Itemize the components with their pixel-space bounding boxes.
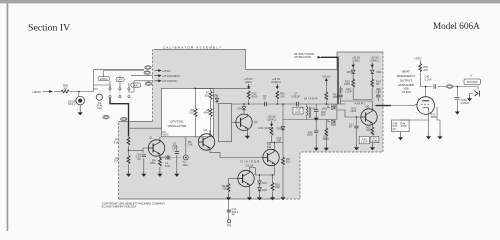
transformer T1 core [309,107,310,118]
wire to resistor R28 [54,91,61,93]
wire Q3 emitter to ground [246,131,248,134]
heavy strap from wiper [110,98,129,137]
svg-text:CALIBRATOR ASSEMBLY: CALIBRATOR ASSEMBLY [163,45,221,49]
svg-text:+25.6V: +25.6V [162,69,171,73]
boxed resistor R18 1000 [293,107,303,114]
wire R7 to R8 [210,100,212,108]
crystal Y1 dot [185,157,187,159]
ground under Q3 [246,133,250,138]
left page edge line [7,3,9,231]
resistor R4 [159,158,162,166]
ground under C46 [455,109,459,114]
svg-text:Q3,Q4: Q3,Q4 [246,163,254,167]
ground under Q5 [248,195,252,200]
ground under R2 [127,171,131,176]
svg-text:(1MC): (1MC) [245,80,252,84]
svg-text:750: 750 [222,186,227,190]
ground under C1 [142,171,146,176]
transistor Q2 buffer [198,134,214,150]
svg-text:620: 620 [275,185,280,189]
svg-text:0.01UF: 0.01UF [292,94,301,98]
resistor R45 15K [419,64,422,72]
node dot CR6 top [243,103,245,105]
resistor R14 [270,127,273,135]
wire emitter to L1 [160,156,165,158]
resistor R11 vertical [276,91,279,99]
wire mixer supply down [325,84,327,92]
wire R19 down to rail [353,88,372,100]
svg-text:5600: 5600 [163,132,169,136]
svg-text:FREQUENCY: FREQUENCY [397,74,416,78]
net arrow +25.6V 1MC [155,80,162,82]
capacitor C10 on tp wire [227,210,231,212]
lamp DS1 circle [76,96,85,105]
svg-text:Q1: Q1 [149,136,153,140]
osc box internal wire 1 [195,88,197,108]
assembly solid top edges [154,50,383,70]
svg-text:2.2UF: 2.2UF [361,139,368,143]
tube cathode wire down [401,107,441,134]
capacitor C8 in line [265,102,267,106]
supply arrow q3 [270,121,272,126]
svg-text:470K: 470K [401,124,407,128]
cathode RC box [392,120,410,132]
svg-text:PHONES: PHONES [467,80,478,84]
svg-text:UF: UF [137,157,141,161]
wire CR4 chain [371,67,373,79]
RF heavy line [321,57,338,104]
ground under C17 [355,145,359,150]
resistor R22 hang [325,128,328,136]
ground under CR2 [258,195,262,200]
node dot divider rail [274,142,276,144]
svg-text:AF: AF [232,213,236,217]
wire Q5 emitter down [248,187,250,195]
wire T1 stems [306,104,308,120]
wire 100KC feed line1 [104,71,144,88]
mixer lower rail [283,119,337,121]
wire C17 stems [356,117,358,145]
resistor R19 [352,79,355,87]
wire R21 to wire [325,101,327,104]
wire diodes vertical link [328,104,337,122]
wire C9 stems [315,104,317,115]
assembly dashed left edges [119,50,153,200]
svg-text:+25.6V: +25.6V [322,75,331,79]
svg-text:CR1: CR1 [262,181,268,185]
calibrator assembly shaded region [119,50,384,200]
svg-text:CR6: CR6 [237,107,243,111]
node base tap junction [128,150,130,152]
node dot R16 top [272,174,274,176]
svg-text:BEAT: BEAT [402,70,410,74]
wire short stub into switch row [94,88,98,90]
node dot output branch [457,86,459,88]
svg-text:10K: 10K [280,94,285,98]
wire collector diode [243,104,245,114]
wire R10 to main wire [248,100,250,104]
supply rail y88.3 [195,87,250,89]
wire box to ground [400,132,402,135]
osc box internal wire 2 [210,88,212,91]
svg-text:(100KC): (100KC) [370,58,380,62]
assembly notch bottom edge [119,121,153,123]
switch label box OFF [116,78,124,82]
node emitter tap [159,157,160,158]
capacitor C1 stem [142,150,144,153]
wire base tap to Q1 [129,148,149,150]
wire grid lead [391,104,418,106]
capacitor C17 hang [354,126,358,128]
switch label box 100KC [98,77,109,81]
ground under tube k2 [438,134,442,139]
wire Q2 collector up [209,130,211,134]
switch rotor S1 circle [96,94,102,100]
wire OFF box to contact [119,82,121,87]
diode CR8 [281,127,285,130]
ground under jack [468,96,472,101]
wire Q5 base left [229,178,238,180]
svg-text:AMPLIFIER: AMPLIFIER [398,83,415,87]
wire R6 to box bottom [195,118,197,137]
resistor R24 [371,79,374,87]
svg-text:C9: C9 [311,106,315,110]
wire Q6 collector up [341,101,373,109]
supply arrow mixer (up) [325,79,327,84]
svg-text:215K: 215K [372,139,378,143]
svg-text:100KC: 100KC [100,77,108,81]
test point wire below assembly [228,199,230,220]
svg-text:OSCILLATOR: OSCILLATOR [168,124,188,128]
capacitor C14 hang [314,131,318,133]
wire Q1 collector to osc box [159,137,161,140]
wire R45 to node [420,73,431,87]
ground under R17 [281,195,285,200]
svg-text:R14: R14 [259,126,264,130]
wire C14 stems [315,120,317,146]
node dot mixer top [326,103,328,105]
svg-text:(100KC): (100KC) [271,80,281,84]
transformer T1 winding [307,107,308,116]
wire C15 stems [340,86,342,104]
svg-text:SCAN BY HB9HFK FEB 2004: SCAN BY HB9HFK FEB 2004 [102,204,137,208]
resistor R17 510 [282,157,285,165]
supply arrow mid2 [276,84,278,89]
svg-text:15K: 15K [423,68,428,72]
switch contact 2 row1 [119,88,121,90]
wire net row1 to boundary [131,75,153,77]
svg-text:390: 390 [277,139,282,143]
wire R13 stems [228,179,230,195]
svg-text:1000: 1000 [322,106,328,110]
wire lamp stem [78,92,80,97]
wire Q1 emitter to R4 [159,156,161,158]
resistor R13 750 [227,184,230,192]
inductor L1 slug tuned [166,156,170,160]
jack ground stem [470,94,474,96]
wire R17 stems [282,143,284,195]
svg-text:Section IV: Section IV [28,22,70,33]
wire R2 to ground [128,165,130,172]
node dot CR8 top [282,103,284,105]
svg-text:51K: 51K [189,111,194,115]
capacitor C9 mixer [314,110,318,112]
diode CR1 divider [258,181,262,184]
wire C16 stems [377,88,379,101]
svg-text:0.05UF: 0.05UF [461,101,470,105]
svg-text:1/2 6U8: 1/2 6U8 [401,90,411,94]
transistor Q1 [148,140,164,156]
tuning dashed link to Y1 [172,157,182,159]
wire Q2 emitter chain to divider [210,150,262,157]
wire R14 down [271,136,273,143]
assembly bottom edge [119,198,279,200]
capacitor C45 in line [434,84,436,88]
svg-text:510: 510 [286,159,291,163]
supply arrow tr2 [371,63,373,68]
svg-text:CAL: CAL [97,106,103,110]
svg-text:51K: 51K [205,93,210,97]
svg-text:TP1: TP1 [227,223,232,227]
node dot plate [425,86,427,88]
svg-text:1000: 1000 [344,82,350,86]
diode CR3 [351,70,355,73]
svg-text:300K: 300K [431,115,437,119]
wire CR chain [259,175,261,195]
svg-text:OFF: OFF [118,78,124,82]
RF arrowhead [318,56,322,59]
oval tag C [145,82,151,86]
svg-text:Model 606A: Model 606A [433,21,480,31]
svg-text:(100KC): (100KC) [267,117,277,121]
oval tag D lower left [103,115,109,119]
svg-text:+300V: +300V [414,56,422,60]
svg-text:390: 390 [267,145,272,149]
wire C45 to phones [438,87,478,90]
ground under C14 [314,145,318,150]
wire Q5 collector up join [249,168,255,176]
svg-text:CR8: CR8 [276,126,282,130]
ground under R16 [271,195,275,200]
oval tag B [144,71,150,75]
node dot CR top [259,174,261,176]
svg-text:(1MC): (1MC) [352,58,359,62]
node dot R11 wire [277,103,279,105]
svg-text:MIXER: MIXER [304,97,318,101]
svg-text:10K: 10K [188,143,193,147]
wire R25 down [371,136,373,145]
capacitor C16 [376,95,380,97]
transistor Q3 osc out [236,114,252,130]
capacitor C7 in line [297,102,299,106]
wire arrow after +300V [43,91,53,93]
oval tag E on strap [121,117,127,121]
svg-text:DS1 V: DS1 V [68,102,76,106]
resistor R2 [127,156,130,164]
net arrow +25.6V [155,70,162,72]
capacitor C15 [338,95,342,97]
diode CR7 horizontal [332,120,335,124]
node dot base [356,116,358,118]
svg-text:1.5UF: 1.5UF [345,89,352,93]
transistor Q5 divider lower [238,170,254,186]
svg-text:Q6: Q6 [366,105,370,109]
wire Q6 base from mixer diodes [337,110,361,117]
svg-text:20K: 20K [63,86,68,90]
switch contact 1 row1 [109,88,111,90]
wire CR3 chain [352,67,354,79]
ground under C3 [175,171,179,176]
boxed res R27 [371,136,379,142]
wire C46 to ground [456,100,458,109]
wire Q3 base from box [232,121,236,123]
wire R16 stems [272,175,274,195]
wire R8 down [210,118,212,137]
svg-text:100: 100 [366,128,371,132]
svg-text:2610: 2610 [350,109,356,113]
svg-text:+25.6V(1MC): +25.6V(1MC) [162,79,178,83]
wire +300V down [419,60,421,63]
ground under R4 [158,171,162,176]
wire between R1 R2 [128,146,130,155]
feedback loop box [218,104,231,142]
svg-text:CR6: CR6 [331,104,337,108]
top scan bar [0,0,500,3]
switch contact 3 row2 [128,96,130,98]
resistor R6 in box [194,109,197,117]
tube grid dashes [421,103,429,105]
svg-text:AMPL: AMPL [355,102,366,106]
oval tag A [145,66,151,70]
svg-text:OUTPUT: OUTPUT [400,78,413,82]
ground under RC box [399,135,403,140]
svg-text:Q3: Q3 [254,120,258,124]
svg-text:UF: UF [173,147,177,151]
wire Y1 to box bottom [185,137,187,155]
ground under tube k1 [427,134,431,139]
phones label box [464,79,480,84]
svg-text:ATTENUATOR: ATTENUATOR [294,55,311,59]
svg-text:1000: 1000 [307,132,313,136]
wire R22 stems [325,120,327,146]
lamp DS1 filament dot [78,99,82,103]
svg-text:+25.6V(100KC): +25.6V(100KC) [162,74,180,78]
wire ampl out heavy [376,105,392,107]
resistor R7 in box [209,91,212,99]
resistor R1 on strap [127,137,130,145]
switch contact 1 row2 [109,96,111,98]
wire from R28 to corner [70,91,94,93]
wire Q4 emitter down [255,166,274,175]
svg-text:+300V: +300V [32,90,41,94]
svg-text:10K: 10K [114,159,119,163]
transistor Q4 divider upper [263,149,279,165]
capacitor C46 [455,97,459,99]
ground mixer mid [314,115,318,120]
wire contacts to nets row [94,76,129,88]
ground under R22 [324,145,328,150]
tube plate bar [422,100,429,102]
switch label box 1MC [131,83,141,87]
supply arrow tr1 [352,63,354,68]
svg-text:0.1UF: 0.1UF [425,77,432,81]
assembly dashed right edge [300,52,383,199]
net arrow +25.6V 100KC [155,75,162,77]
main coupling wire y104 [232,103,346,105]
wire net row2 to boundary [129,81,153,92]
svg-text:8100: 8100 [252,94,258,98]
switch wiper dashed link [110,90,120,96]
svg-text:CR7: CR7 [331,123,337,127]
svg-text:6-50: 6-50 [165,164,171,168]
svg-text:4040: 4040 [203,111,209,115]
wire up corner to switch top feed [94,70,144,92]
test point terminal circle [227,220,230,223]
ground under R13 [227,195,231,200]
wire C3 stems [176,145,178,171]
boxed cap C13 [359,136,369,143]
phone jack symbol [475,91,480,97]
wire R4 to ground [159,167,161,171]
resistor R21 680 [325,92,328,100]
svg-text:680: 680 [333,95,338,99]
wire collector rail y128 [130,127,162,129]
capacitor C3 [175,152,179,154]
resistor R10 vertical to wire [247,91,250,99]
svg-text:DIVIDER: DIVIDER [241,159,261,163]
wire box top to rail [216,95,218,104]
svg-text:1000: 1000 [150,161,156,165]
svg-text:CR4: CR4 [213,94,219,98]
svg-text:600: 600 [321,113,326,117]
switch contact 2 row2 [119,96,121,98]
crystal Y1 circle [183,155,188,160]
svg-text:5600: 5600 [323,137,329,141]
wire Q6 emitter down [371,125,373,127]
svg-text:CR2: CR2 [262,188,268,192]
svg-text:CR4: CR4 [376,70,382,74]
ground under lamp [78,110,82,115]
supply arrow mid1 [248,84,250,89]
wire Q4 collector up [273,143,275,150]
crystal oscillator white box [162,88,214,136]
ground under R25 [371,145,375,150]
wire R11 to main wire [276,100,278,104]
tube V8B envelope [417,97,435,115]
svg-text:1000: 1000 [295,110,301,114]
tube cathode [423,108,429,111]
svg-text:CR3: CR3 [346,70,352,74]
assembly bottom dashed segment [278,198,300,200]
svg-text:51K: 51K [114,140,119,144]
svg-text:Q2: Q2 [204,128,208,132]
node dot R10 wire [248,103,250,105]
resistor R25 100 [371,127,374,135]
svg-text:UF: UF [393,127,397,131]
wire C1 to ground [143,158,145,171]
oval tag output [447,85,453,89]
resistor R28 (horizontal zigzag) [61,90,69,93]
wire plate to node [425,87,427,97]
capacitor C1 [142,155,146,157]
diode CR6m horizontal [332,106,335,110]
node junction dot at lamp tap [78,91,80,93]
diode CR1 at box top [215,98,219,101]
resistor R16 620 [271,183,274,191]
svg-text:1MC: 1MC [183,163,189,167]
wire branch down to C46 [456,87,458,97]
switch contact 3 row1 [128,88,130,90]
